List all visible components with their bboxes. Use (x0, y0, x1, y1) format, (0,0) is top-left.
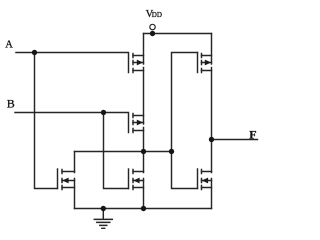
svg-text:DD: DD (152, 11, 162, 19)
svg-text:B: B (7, 96, 15, 110)
svg-text:A: A (5, 40, 13, 51)
svg-text:F: F (249, 127, 256, 141)
